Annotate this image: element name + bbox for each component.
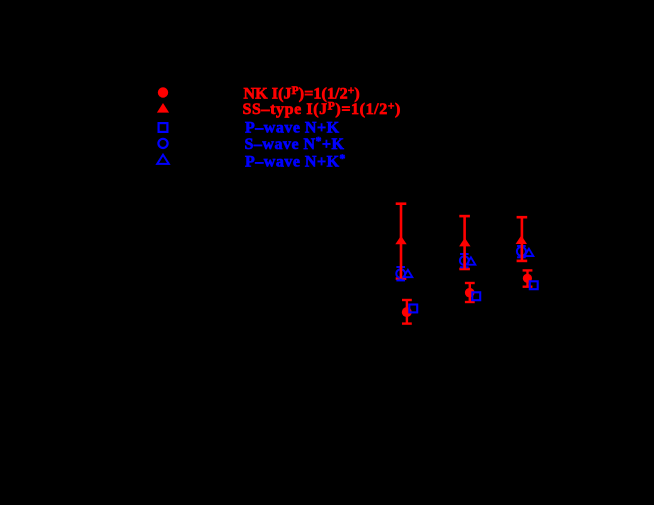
svg-text:SS–type I(JP)=1(1/2+): SS–type I(JP)=1(1/2+) bbox=[243, 101, 401, 119]
cluster 2: red SS-type filled triangle bbox=[459, 238, 470, 247]
cluster 3: red NK filled circle with error bar bbox=[523, 270, 533, 286]
cluster 3: blue S-wave open circle with error bar bbox=[517, 246, 526, 257]
cluster 2: blue P-wave open triangle bbox=[467, 257, 476, 264]
cluster 1: red NK filled circle with error bar bbox=[402, 300, 412, 324]
svg-text:P–wave N+K*: P–wave N+K* bbox=[245, 153, 346, 171]
cluster 1: red SS-type filled triangle bbox=[395, 236, 406, 245]
legend marker: blue open circle bbox=[158, 139, 167, 148]
cluster 3: blue P-wave open square bbox=[530, 281, 538, 289]
svg-text:P–wave N+K: P–wave N+K bbox=[245, 120, 340, 137]
cluster 1: red SS-type error bar caps bbox=[396, 204, 407, 279]
cluster 1: red SS-type error bar line bbox=[400, 204, 403, 279]
cluster 1: blue P-wave open square bbox=[409, 305, 417, 313]
cluster 3: red SS-type filled triangle bbox=[516, 235, 527, 244]
svg-text:NK I(JP)=1(1/2+): NK I(JP)=1(1/2+) bbox=[244, 85, 360, 103]
legend marker: blue open triangle bbox=[157, 155, 169, 164]
legend marker: red filled triangle bbox=[157, 103, 169, 113]
cluster 3: red SS-type error bar caps bbox=[517, 217, 528, 261]
cluster 1: blue S-wave open circle with error bar bbox=[396, 267, 405, 280]
legend marker: blue open square bbox=[159, 123, 168, 132]
cluster 2: red SS-type error bar line bbox=[463, 216, 466, 269]
cluster 2: blue P-wave open square bbox=[472, 292, 480, 300]
legend marker: red filled circle bbox=[158, 87, 168, 97]
cluster 3: red SS-type error bar line bbox=[521, 217, 524, 261]
cluster 2: red SS-type error bar caps bbox=[459, 216, 470, 269]
cluster 2: blue S-wave open circle with error bar bbox=[460, 254, 469, 267]
cluster 1: blue P-wave open triangle bbox=[404, 270, 413, 277]
svg-text:S–wave N*+K: S–wave N*+K bbox=[245, 136, 345, 154]
cluster 3: blue P-wave open triangle bbox=[525, 249, 534, 256]
cluster 2: red NK filled circle with error bar bbox=[465, 283, 475, 302]
